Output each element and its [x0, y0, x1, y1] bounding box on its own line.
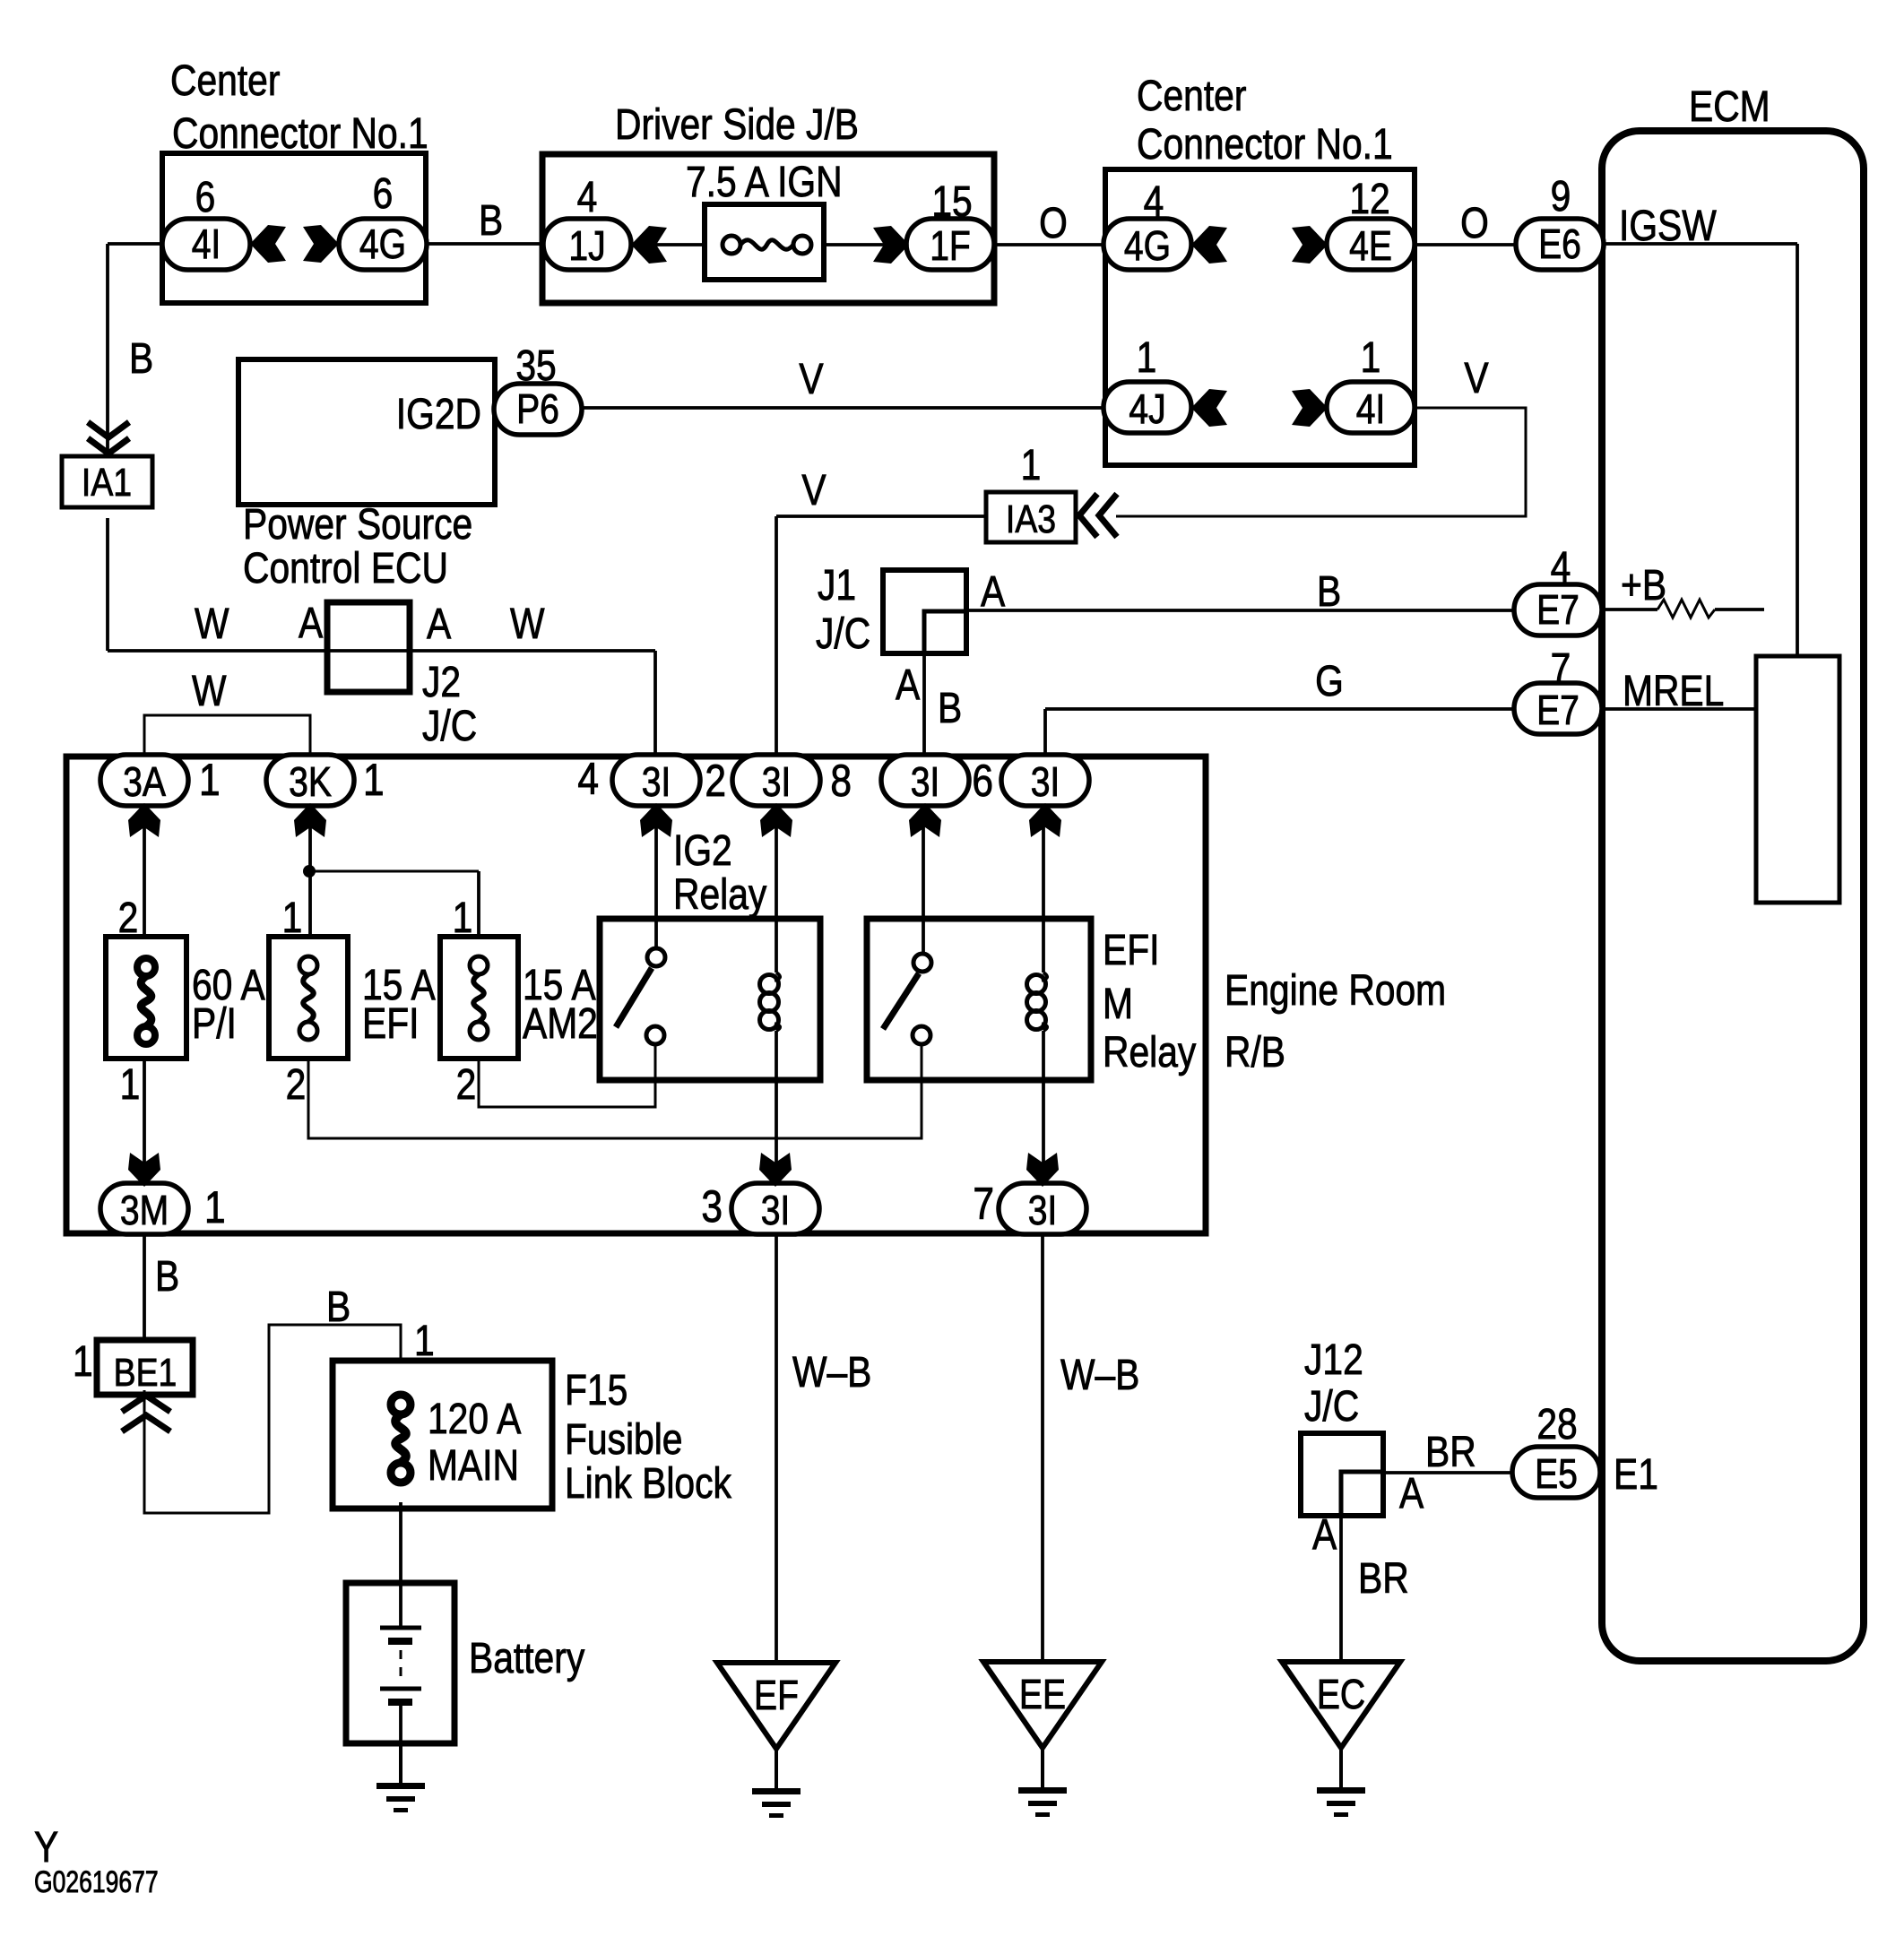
svg-text:ECM: ECM — [1689, 83, 1770, 131]
svg-text:J/C: J/C — [1304, 1383, 1359, 1431]
svg-text:4I: 4I — [192, 221, 221, 268]
svg-text:E5: E5 — [1535, 1451, 1578, 1498]
svg-text:3I: 3I — [1031, 759, 1060, 806]
svg-text:Control ECU: Control ECU — [243, 545, 448, 592]
svg-text:1: 1 — [282, 895, 303, 942]
svg-text:+B: +B — [1621, 562, 1666, 610]
svg-text:W: W — [195, 601, 229, 648]
svg-text:4: 4 — [577, 174, 598, 221]
svg-text:4: 4 — [577, 754, 599, 804]
svg-text:Connector No.1: Connector No.1 — [172, 110, 428, 158]
svg-text:1: 1 — [414, 1318, 435, 1365]
svg-text:Fusible: Fusible — [565, 1416, 682, 1464]
svg-text:Connector No.1: Connector No.1 — [1137, 121, 1393, 169]
svg-text:4G: 4G — [1124, 223, 1171, 270]
svg-text:AM2: AM2 — [523, 1000, 598, 1048]
svg-text:Center: Center — [170, 57, 281, 105]
svg-text:6: 6 — [972, 756, 993, 806]
svg-text:4G: 4G — [359, 221, 406, 268]
svg-text:Engine Room: Engine Room — [1225, 967, 1446, 1015]
svg-text:B: B — [479, 197, 503, 245]
svg-text:A: A — [896, 661, 920, 709]
svg-text:EFI: EFI — [362, 1000, 419, 1048]
svg-text:G02619677: G02619677 — [34, 1865, 159, 1899]
svg-text:A: A — [299, 600, 323, 647]
svg-text:O: O — [1039, 200, 1068, 247]
svg-text:Y: Y — [34, 1824, 58, 1872]
svg-text:J/C: J/C — [816, 610, 870, 658]
svg-text:G: G — [1315, 658, 1344, 705]
svg-text:12: 12 — [1349, 176, 1389, 223]
svg-text:4I: 4I — [1356, 386, 1386, 433]
svg-text:J1: J1 — [818, 562, 856, 610]
svg-text:P/I: P/I — [192, 1000, 237, 1048]
svg-text:3I: 3I — [762, 759, 792, 806]
svg-text:BR: BR — [1358, 1555, 1409, 1603]
svg-text:Power Source: Power Source — [243, 501, 472, 549]
svg-text:IA1: IA1 — [82, 460, 132, 505]
svg-text:B: B — [326, 1284, 351, 1331]
svg-text:MREL: MREL — [1623, 668, 1724, 715]
svg-text:1: 1 — [363, 755, 385, 805]
svg-text:1: 1 — [120, 1061, 141, 1109]
svg-text:IA3: IA3 — [1006, 497, 1056, 541]
svg-text:7: 7 — [1551, 645, 1571, 693]
svg-text:2: 2 — [118, 895, 139, 942]
svg-text:V: V — [801, 467, 826, 514]
svg-text:Battery: Battery — [469, 1635, 585, 1682]
svg-text:1: 1 — [1137, 334, 1157, 382]
svg-text:B: B — [1317, 568, 1341, 616]
svg-text:J/C: J/C — [422, 703, 477, 750]
svg-text:Driver Side J/B: Driver Side J/B — [615, 101, 859, 149]
svg-text:A: A — [427, 601, 451, 648]
svg-text:BE1: BE1 — [114, 1350, 177, 1395]
svg-text:V: V — [799, 356, 823, 403]
svg-text:EE: EE — [1019, 1672, 1066, 1718]
svg-text:1J: 1J — [568, 223, 605, 270]
svg-text:E1: E1 — [1614, 1451, 1658, 1499]
svg-text:BR: BR — [1425, 1429, 1476, 1476]
svg-text:4: 4 — [1551, 544, 1571, 592]
svg-text:4E: 4E — [1349, 223, 1392, 270]
svg-text:4: 4 — [1144, 178, 1164, 226]
svg-text:B: B — [155, 1253, 179, 1301]
svg-text:E7: E7 — [1536, 587, 1579, 634]
svg-text:W–B: W–B — [1060, 1352, 1139, 1399]
svg-text:E6: E6 — [1538, 221, 1581, 268]
svg-text:2: 2 — [456, 1061, 477, 1109]
svg-text:E7: E7 — [1536, 687, 1579, 734]
svg-text:2: 2 — [705, 756, 726, 806]
svg-text:1: 1 — [204, 1182, 226, 1232]
svg-text:IGSW: IGSW — [1619, 203, 1717, 250]
svg-text:B: B — [938, 685, 962, 732]
svg-text:W–B: W–B — [792, 1349, 871, 1396]
svg-text:IG2D: IG2D — [396, 391, 481, 438]
svg-text:P6: P6 — [516, 386, 559, 433]
svg-text:1: 1 — [453, 895, 473, 942]
svg-text:4J: 4J — [1129, 386, 1165, 433]
svg-text:1: 1 — [1361, 334, 1381, 382]
svg-text:A: A — [981, 568, 1005, 616]
svg-text:3K: 3K — [289, 759, 332, 806]
svg-text:F15: F15 — [565, 1367, 627, 1414]
svg-text:3I: 3I — [642, 759, 671, 806]
svg-text:EC: EC — [1317, 1672, 1365, 1718]
svg-text:IG2: IG2 — [673, 827, 732, 875]
svg-text:B: B — [129, 335, 153, 383]
svg-text:3I: 3I — [1028, 1188, 1058, 1234]
svg-text:V: V — [1464, 355, 1488, 402]
svg-text:Relay: Relay — [673, 871, 767, 919]
svg-text:O: O — [1460, 200, 1489, 247]
svg-text:W: W — [510, 601, 544, 648]
svg-text:3: 3 — [701, 1181, 723, 1232]
svg-text:3I: 3I — [761, 1188, 791, 1234]
svg-text:Link Block: Link Block — [565, 1460, 732, 1508]
svg-text:Center: Center — [1137, 73, 1247, 120]
svg-text:MAIN: MAIN — [428, 1442, 519, 1490]
svg-text:W: W — [192, 668, 226, 715]
svg-text:15: 15 — [931, 178, 972, 226]
svg-text:EF: EF — [754, 1673, 799, 1719]
svg-text:J2: J2 — [422, 659, 461, 706]
svg-text:3M: 3M — [120, 1188, 169, 1234]
svg-text:7.5 A IGN: 7.5 A IGN — [686, 159, 843, 206]
svg-text:28: 28 — [1536, 1401, 1577, 1448]
svg-text:9: 9 — [1551, 173, 1571, 220]
svg-text:3A: 3A — [123, 759, 166, 806]
svg-text:2: 2 — [286, 1061, 307, 1109]
svg-text:1: 1 — [199, 755, 221, 805]
svg-text:6: 6 — [373, 170, 394, 218]
svg-text:1: 1 — [73, 1338, 93, 1386]
svg-text:3I: 3I — [911, 759, 940, 806]
svg-text:J12: J12 — [1304, 1336, 1363, 1384]
svg-text:A: A — [1399, 1470, 1424, 1517]
svg-text:8: 8 — [830, 756, 852, 806]
svg-text:6: 6 — [195, 174, 216, 221]
svg-text:Relay: Relay — [1103, 1029, 1197, 1076]
svg-text:1F: 1F — [930, 223, 971, 270]
svg-text:A: A — [1312, 1511, 1337, 1559]
svg-text:EFI: EFI — [1103, 927, 1159, 974]
svg-text:7: 7 — [973, 1179, 994, 1229]
svg-text:R/B: R/B — [1225, 1029, 1285, 1076]
svg-text:1: 1 — [1021, 442, 1042, 489]
svg-text:M: M — [1103, 981, 1133, 1028]
svg-text:120 A: 120 A — [428, 1396, 522, 1443]
svg-text:35: 35 — [515, 342, 556, 390]
